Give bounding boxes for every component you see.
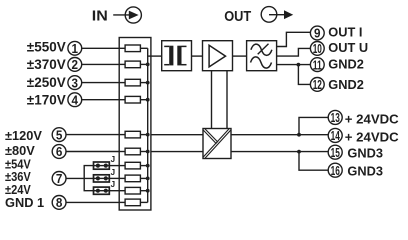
- svg-text:2: 2: [72, 57, 79, 72]
- svg-text:+ 24VDC: + 24VDC: [345, 130, 399, 145]
- svg-text:15: 15: [331, 145, 340, 160]
- svg-text:±120V: ±120V: [5, 128, 42, 143]
- svg-text:J: J: [111, 168, 115, 177]
- svg-text:7: 7: [56, 171, 63, 186]
- svg-text:6: 6: [56, 144, 63, 159]
- svg-text:4: 4: [72, 92, 79, 107]
- svg-text:3: 3: [72, 75, 79, 90]
- svg-text:9: 9: [314, 26, 321, 41]
- svg-text:J: J: [111, 180, 115, 189]
- svg-text:12: 12: [313, 77, 322, 92]
- svg-text:±250V: ±250V: [27, 75, 66, 90]
- svg-text:OUT I: OUT I: [328, 25, 362, 40]
- svg-text:OUT U: OUT U: [328, 40, 368, 55]
- svg-text:J: J: [111, 155, 115, 164]
- svg-text:±370V: ±370V: [27, 57, 66, 72]
- svg-text:GND 1: GND 1: [5, 195, 44, 210]
- svg-text:16: 16: [331, 163, 340, 178]
- svg-text:8: 8: [56, 195, 63, 210]
- svg-text:14: 14: [331, 128, 341, 143]
- svg-text:11: 11: [313, 57, 322, 72]
- svg-text:±550V: ±550V: [27, 40, 66, 55]
- svg-text:IN: IN: [92, 9, 108, 25]
- svg-text:OUT: OUT: [224, 9, 251, 25]
- svg-text:GND3: GND3: [347, 146, 383, 161]
- svg-text:GND3: GND3: [347, 164, 383, 179]
- svg-text:+ 24VDC: + 24VDC: [345, 112, 399, 127]
- svg-text:GND2: GND2: [328, 57, 364, 72]
- svg-text:10: 10: [313, 41, 322, 56]
- svg-text:1: 1: [72, 41, 79, 56]
- svg-text:13: 13: [331, 110, 340, 125]
- svg-text:±170V: ±170V: [27, 93, 66, 108]
- svg-text:GND2: GND2: [328, 77, 364, 92]
- svg-text:5: 5: [56, 127, 63, 142]
